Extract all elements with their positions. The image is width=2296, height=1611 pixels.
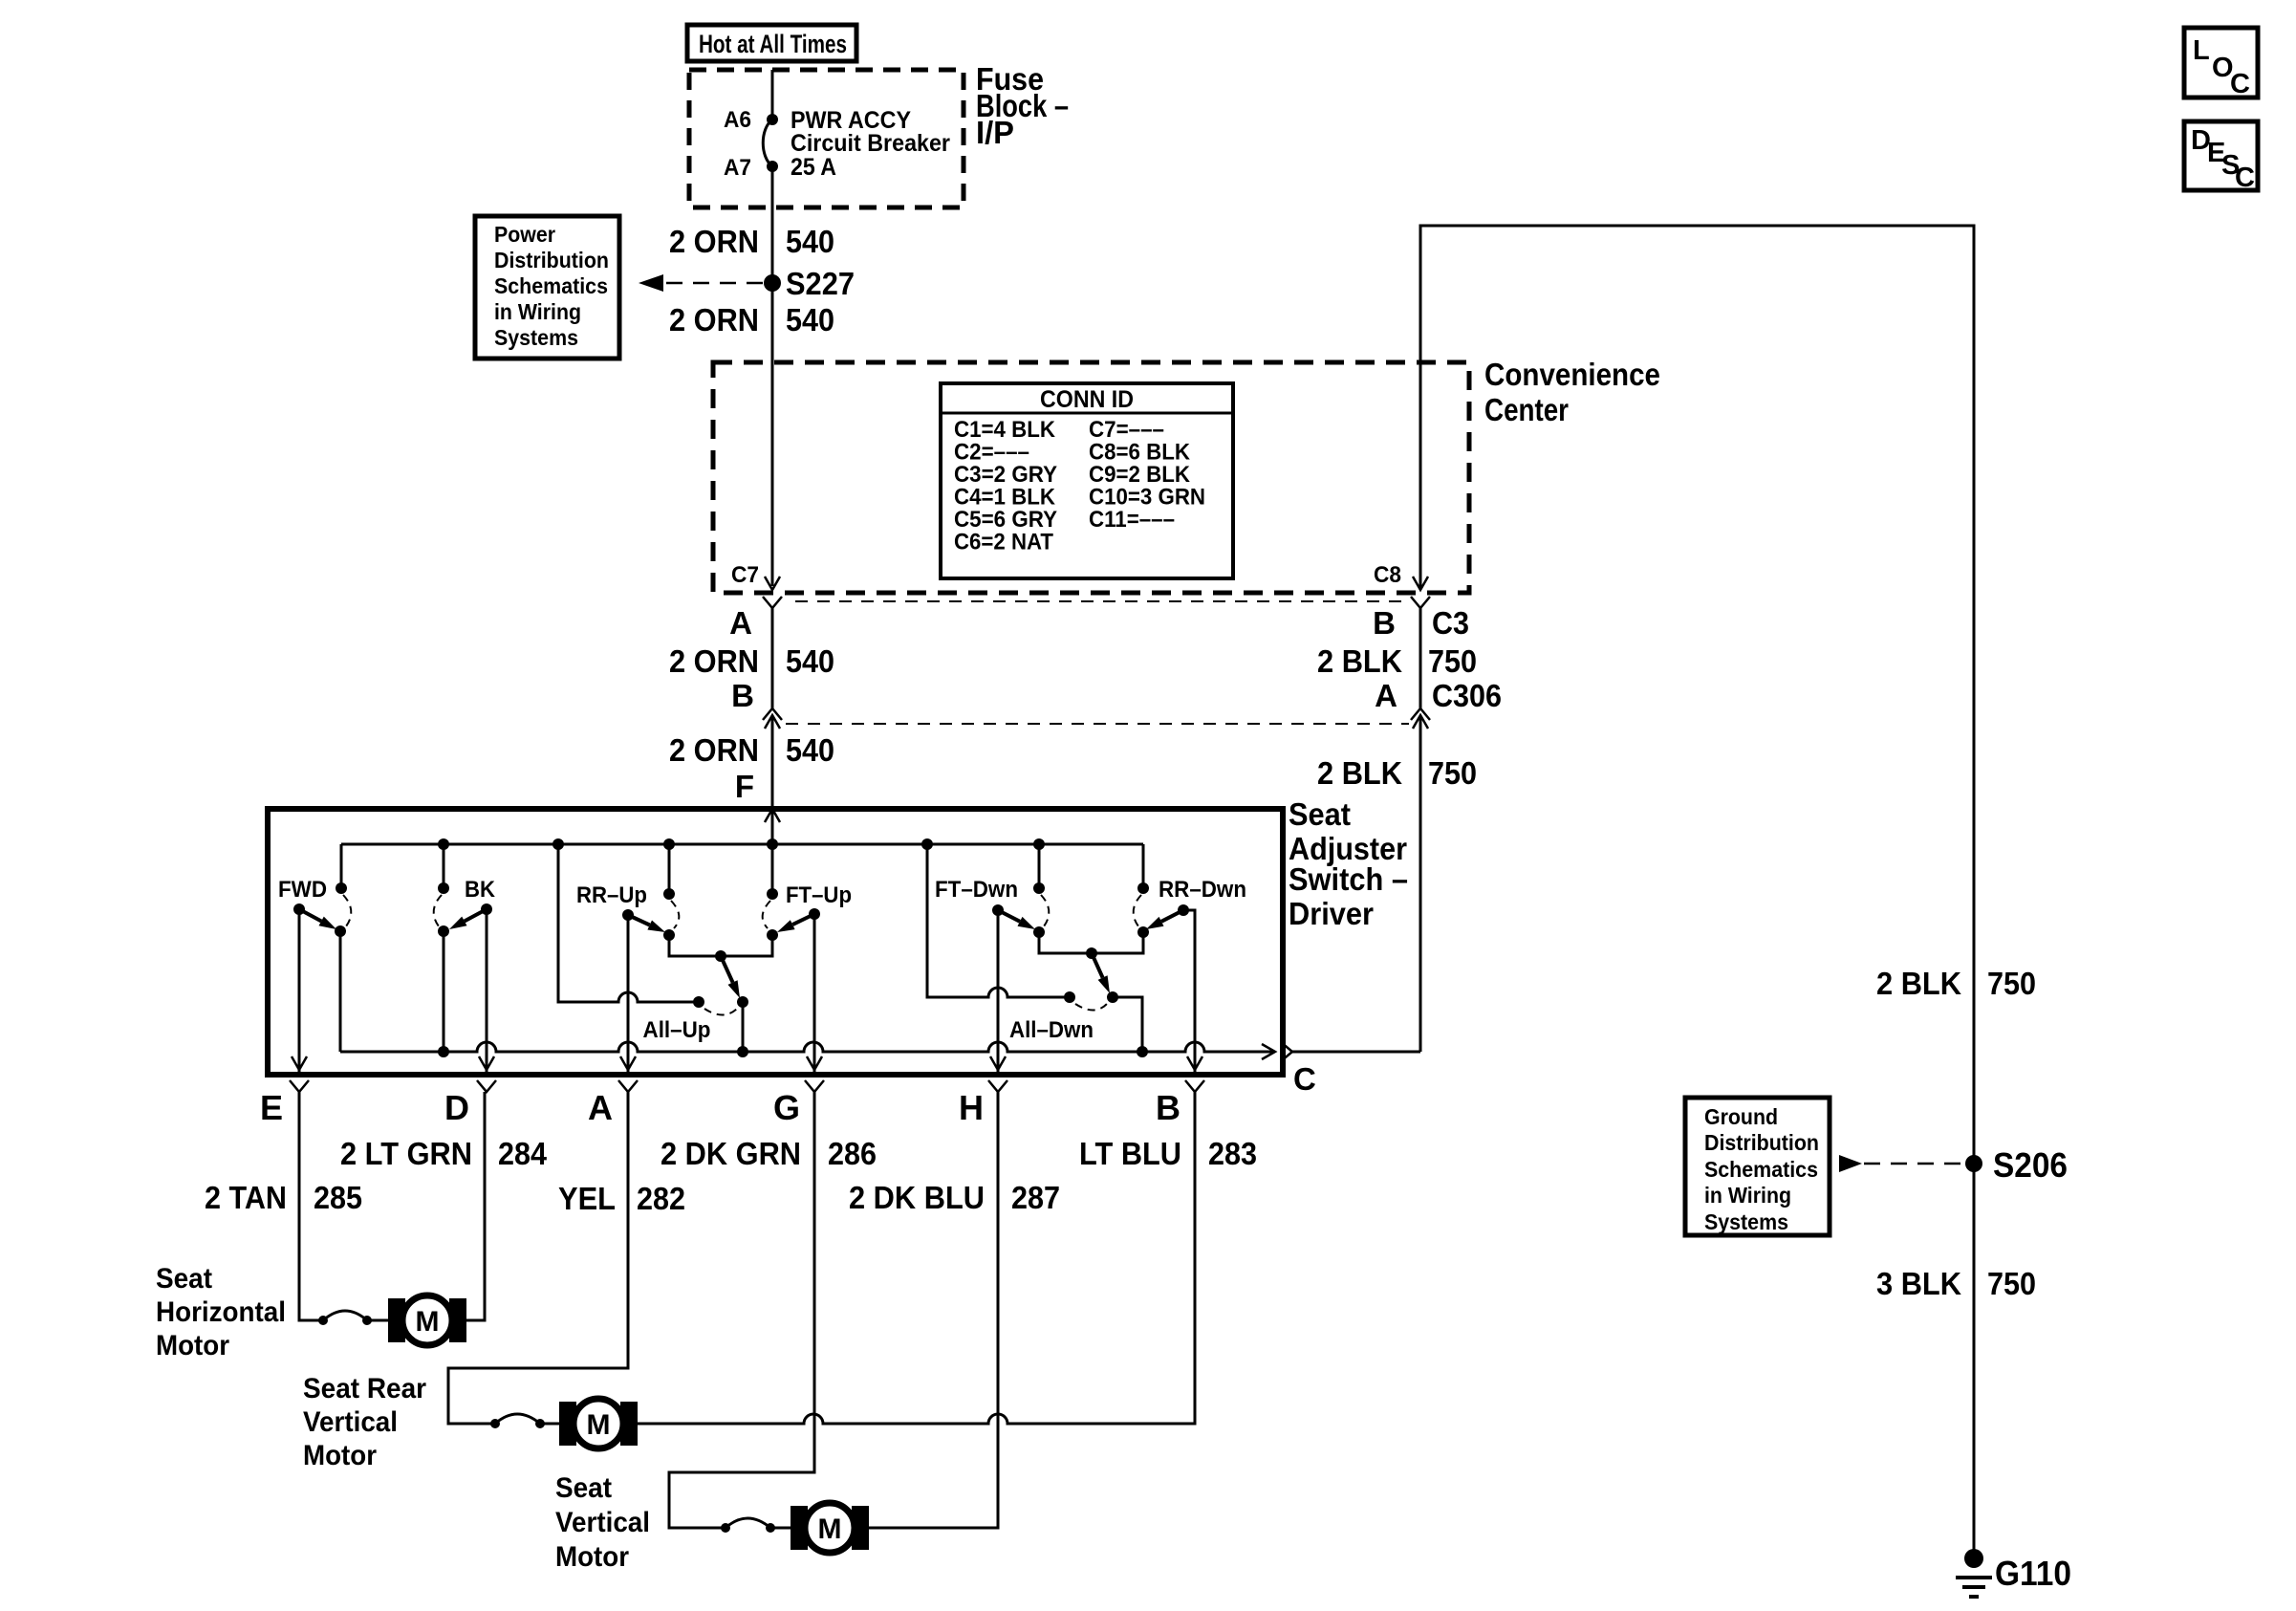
svg-text:F: F (735, 769, 754, 804)
svg-text:Horizontal: Horizontal (156, 1296, 286, 1328)
dashed reference arrow to S206 (1839, 1155, 1862, 1172)
C306 right connector arrow (1413, 715, 1428, 729)
svg-text:750: 750 (1987, 966, 2036, 1001)
svg-text:750: 750 (1987, 1266, 2036, 1301)
svg-text:Schematics: Schematics (494, 273, 608, 298)
svg-text:540: 540 (786, 732, 834, 768)
C8 connector arrow (1413, 577, 1428, 590)
svg-text:Center: Center (1484, 392, 1569, 427)
pin A arrow (620, 1056, 636, 1070)
bus junction at 1087 (1033, 838, 1045, 850)
pin G arrow (807, 1056, 822, 1070)
svg-text:284: 284 (498, 1136, 548, 1171)
svg-text:540: 540 (786, 224, 834, 259)
bus junction at 464 (438, 838, 449, 850)
svg-text:E: E (260, 1088, 283, 1127)
ground symbol G110 (1956, 1576, 1992, 1579)
svg-text:C8: C8 (1374, 562, 1401, 588)
svg-text:2 TAN: 2 TAN (205, 1180, 287, 1215)
in-line connector C3 dashed line (795, 600, 1409, 602)
wire 2 ORN 540 from breaker to C7 (771, 166, 774, 586)
svg-text:3 BLK: 3 BLK (1876, 1266, 1961, 1301)
wire FWD arm to bottom bus (339, 931, 342, 1052)
svg-text:2 ORN: 2 ORN (669, 643, 759, 679)
svg-text:A7: A7 (724, 155, 751, 181)
pin H connector fork (988, 1080, 1007, 1092)
pivot dot Dwn group (1086, 947, 1097, 959)
bus junction at 970 (921, 838, 933, 850)
connector half, pin B of C306 (763, 708, 782, 720)
wire bus to All-Dwn contact with hop over pin H wire (927, 844, 1070, 997)
svg-text:RR–Dwn: RR–Dwn (1159, 877, 1246, 903)
svg-text:2 BLK: 2 BLK (1876, 966, 1961, 1001)
wire RR-Up contact to pin A (627, 915, 630, 1072)
Power Distribution Schematics in Wiring Systems box (475, 216, 619, 359)
svg-text:A: A (1375, 678, 1397, 713)
pin E connector fork (290, 1080, 309, 1092)
svg-text:2 ORN: 2 ORN (669, 224, 759, 259)
bus junction BK arm (438, 1046, 449, 1057)
svg-text:Systems: Systems (1704, 1209, 1788, 1234)
wire BK arm to bottom bus (443, 931, 445, 1052)
C306 connector arrow (765, 715, 780, 729)
svg-text:Seat: Seat (1289, 796, 1351, 832)
wire pin G to vertical motor (669, 1092, 814, 1528)
svg-text:All–Up: All–Up (643, 1017, 711, 1043)
wire bus to All-Up contact with hop over pin A wire (558, 844, 699, 1002)
svg-text:C306: C306 (1432, 678, 1502, 713)
Seat Adjuster Switch - Driver box (268, 809, 1283, 1075)
svg-text:FT–Up: FT–Up (786, 882, 852, 908)
svg-text:Seat Rear: Seat Rear (303, 1373, 426, 1404)
circuit breaker element (763, 120, 772, 166)
svg-text:BK: BK (465, 877, 496, 903)
svg-text:C6=2 NAT: C6=2 NAT (954, 530, 1053, 555)
svg-text:Switch –: Switch – (1289, 861, 1408, 897)
All-Dwn contact pair (1064, 991, 1075, 1003)
svg-text:Systems: Systems (494, 325, 578, 350)
switch FT-Dwn (1038, 844, 1041, 888)
splice S206 (1965, 1155, 1982, 1172)
wire rear vertical motor to pin B with hops (638, 1092, 1195, 1424)
svg-text:Hot at All Times: Hot at All Times (699, 30, 847, 58)
wire FT-Dwn contact to pin H (997, 910, 1000, 1072)
svg-text:Vertical: Vertical (555, 1507, 650, 1538)
svg-text:283: 283 (1208, 1136, 1257, 1171)
wire RR-Dwn contact to pin B (1183, 910, 1195, 1072)
wire 2 BLK 750 loop to ground run (1420, 226, 1974, 1558)
svg-text:C3: C3 (1432, 605, 1469, 641)
svg-text:M: M (818, 1513, 842, 1545)
wire All-Up arm to bottom bus (742, 1002, 745, 1052)
svg-text:750: 750 (1428, 755, 1477, 791)
svg-text:2 ORN: 2 ORN (669, 732, 759, 768)
wire 2 BLK 750 between C3 and C306 (1419, 608, 1422, 708)
svg-text:M: M (587, 1409, 611, 1441)
svg-text:Distribution: Distribution (494, 248, 609, 272)
svg-text:2 DK BLU: 2 DK BLU (849, 1180, 985, 1215)
svg-text:Ground: Ground (1704, 1104, 1778, 1129)
bus junction All-Dwn arm (1137, 1046, 1148, 1057)
svg-text:RR–Up: RR–Up (576, 882, 647, 908)
thermal breaker vertical motor (721, 1523, 730, 1533)
svg-text:B: B (1373, 605, 1396, 641)
svg-text:Seat: Seat (555, 1472, 612, 1504)
svg-text:LT BLU: LT BLU (1079, 1136, 1181, 1171)
wire 2 ORN 540 into switch (771, 715, 774, 807)
connector half, pin A of C306 right (1411, 708, 1430, 720)
svg-text:C: C (1293, 1061, 1316, 1097)
switch BK (443, 844, 445, 888)
top bus wire (341, 843, 1143, 846)
switch RR-Dwn (1142, 844, 1145, 888)
wire FT-Up contact to pin G (813, 914, 816, 1072)
bus junction at 808 (767, 838, 778, 850)
svg-text:All–Dwn: All–Dwn (1009, 1017, 1094, 1043)
thermal breaker rear vertical motor (490, 1419, 500, 1428)
pin B connector fork (1185, 1080, 1204, 1092)
All-Up contact pair (693, 996, 704, 1008)
svg-text:540: 540 (786, 643, 834, 679)
dashed reference arrow to Power Distribution (666, 282, 764, 285)
Ground Distribution Schematics in Wiring Systems box (1685, 1098, 1830, 1235)
svg-text:D: D (444, 1088, 469, 1127)
wire vertical motor to pin H (869, 1092, 998, 1528)
rocker bracket Up group (669, 935, 772, 956)
svg-text:C: C (2235, 163, 2255, 193)
svg-text:FT–Dwn: FT–Dwn (935, 877, 1018, 903)
svg-text:540: 540 (786, 302, 834, 337)
breaker terminal A6 (767, 114, 778, 125)
bus junction All-Up arm (737, 1046, 748, 1057)
motor M seat vertical (791, 1506, 808, 1550)
lever arrow to All-Dwn (1092, 953, 1103, 978)
pin H arrow (990, 1056, 1006, 1070)
LOC reference box (2184, 28, 2258, 98)
motor M seat rear vertical (559, 1402, 576, 1446)
ground connection dot G110 (1964, 1549, 1983, 1568)
svg-text:C7: C7 (731, 562, 759, 588)
svg-text:C: C (2230, 69, 2250, 99)
svg-text:Driver: Driver (1289, 896, 1374, 931)
svg-text:Vertical: Vertical (303, 1406, 398, 1438)
CONN ID table (941, 383, 1233, 578)
svg-text:H: H (959, 1088, 984, 1127)
svg-text:B: B (1156, 1088, 1180, 1127)
thermal breaker horizontal motor (318, 1316, 328, 1325)
Fuse Block - I/P dashed box (689, 70, 964, 207)
svg-text:G: G (773, 1088, 800, 1127)
lever arrow to All-Up (721, 956, 733, 983)
svg-text:25 A: 25 A (791, 154, 836, 181)
Convenience Center dashed box (713, 362, 1469, 593)
pin D arrow (479, 1056, 494, 1070)
svg-text:Seat: Seat (156, 1263, 212, 1295)
svg-text:S206: S206 (1993, 1145, 2068, 1185)
svg-text:287: 287 (1011, 1180, 1060, 1215)
pin G connector fork (805, 1080, 824, 1092)
svg-text:Circuit Breaker: Circuit Breaker (791, 130, 950, 157)
pin B arrow (1187, 1056, 1202, 1070)
svg-text:2 BLK: 2 BLK (1317, 643, 1402, 679)
motor M seat horizontal (388, 1298, 405, 1342)
svg-text:2 LT GRN: 2 LT GRN (340, 1136, 472, 1171)
svg-text:Convenience: Convenience (1484, 357, 1660, 392)
svg-text:A: A (588, 1088, 613, 1127)
svg-text:Motor: Motor (555, 1541, 629, 1573)
svg-text:I/P: I/P (976, 115, 1014, 150)
connector half, pin A of C3 (763, 597, 782, 608)
svg-text:B: B (731, 678, 754, 713)
DESC reference box (2184, 121, 2258, 190)
svg-text:2 ORN: 2 ORN (669, 302, 759, 337)
C7 connector arrow (765, 577, 780, 590)
svg-text:Motor: Motor (156, 1330, 229, 1361)
svg-text:Power: Power (494, 222, 555, 247)
svg-text:285: 285 (314, 1180, 362, 1215)
pin C arrow (1262, 1044, 1275, 1059)
svg-text:A6: A6 (724, 107, 751, 133)
svg-text:in Wiring: in Wiring (1704, 1183, 1791, 1208)
splice S227 (764, 274, 781, 292)
switch FT-Up (771, 809, 774, 894)
pin C connector fork (1281, 1042, 1292, 1061)
svg-text:CONN ID: CONN ID (1040, 386, 1134, 413)
svg-text:2 DK GRN: 2 DK GRN (661, 1136, 801, 1171)
connector half, pin B of C3 right (1411, 597, 1430, 608)
svg-text:FWD: FWD (278, 877, 327, 903)
svg-text:282: 282 (637, 1181, 685, 1216)
wire 2 BLK 750 down to switch pin C (1419, 715, 1422, 1052)
in-line connector C306 dashed line (786, 723, 1409, 725)
bus junction at 700 (663, 838, 675, 850)
svg-text:Motor: Motor (303, 1440, 377, 1471)
svg-text:in Wiring: in Wiring (494, 299, 581, 324)
pin D connector fork (477, 1080, 496, 1092)
wire horizontal motor to pin D (466, 1092, 485, 1320)
breaker terminal A7 (767, 161, 778, 172)
svg-text:C11=–––: C11=––– (1089, 507, 1175, 533)
bottom bus wire with hops (340, 1042, 1273, 1052)
svg-text:Schematics: Schematics (1704, 1157, 1818, 1182)
svg-text:A: A (729, 605, 752, 641)
rocker bracket Dwn group (1039, 932, 1143, 953)
wire pin A to rear vertical motor (448, 1092, 628, 1424)
svg-text:286: 286 (828, 1136, 877, 1171)
svg-text:S227: S227 (786, 266, 855, 301)
pin F arrow into switch (765, 809, 780, 822)
wire BK contact to pin D (486, 909, 488, 1072)
pin A connector fork (618, 1080, 638, 1092)
svg-text:YEL: YEL (558, 1181, 616, 1216)
wire into breaker (771, 70, 774, 120)
bus junction at 584 (552, 838, 564, 850)
wire 2 ORN 540 between C3 and C306 (771, 608, 774, 708)
wire pin C to right riser (1292, 1051, 1420, 1054)
wire FWD contact to pin E (298, 909, 301, 1072)
pivot dot Up group (715, 950, 726, 962)
svg-text:750: 750 (1428, 643, 1477, 679)
svg-text:Distribution: Distribution (1704, 1130, 1819, 1155)
wire All-Dwn arm to bottom bus (1113, 997, 1142, 1052)
switch RR-Up (668, 844, 671, 894)
svg-text:2 BLK: 2 BLK (1317, 755, 1402, 791)
svg-text:G110: G110 (1995, 1554, 2071, 1593)
pin E arrow (292, 1056, 307, 1070)
wire pin E to horizontal motor (299, 1092, 323, 1320)
svg-text:M: M (416, 1306, 440, 1338)
switch FWD (340, 844, 343, 888)
svg-text:L: L (2193, 35, 2210, 66)
Hot at All Times box (687, 25, 856, 61)
